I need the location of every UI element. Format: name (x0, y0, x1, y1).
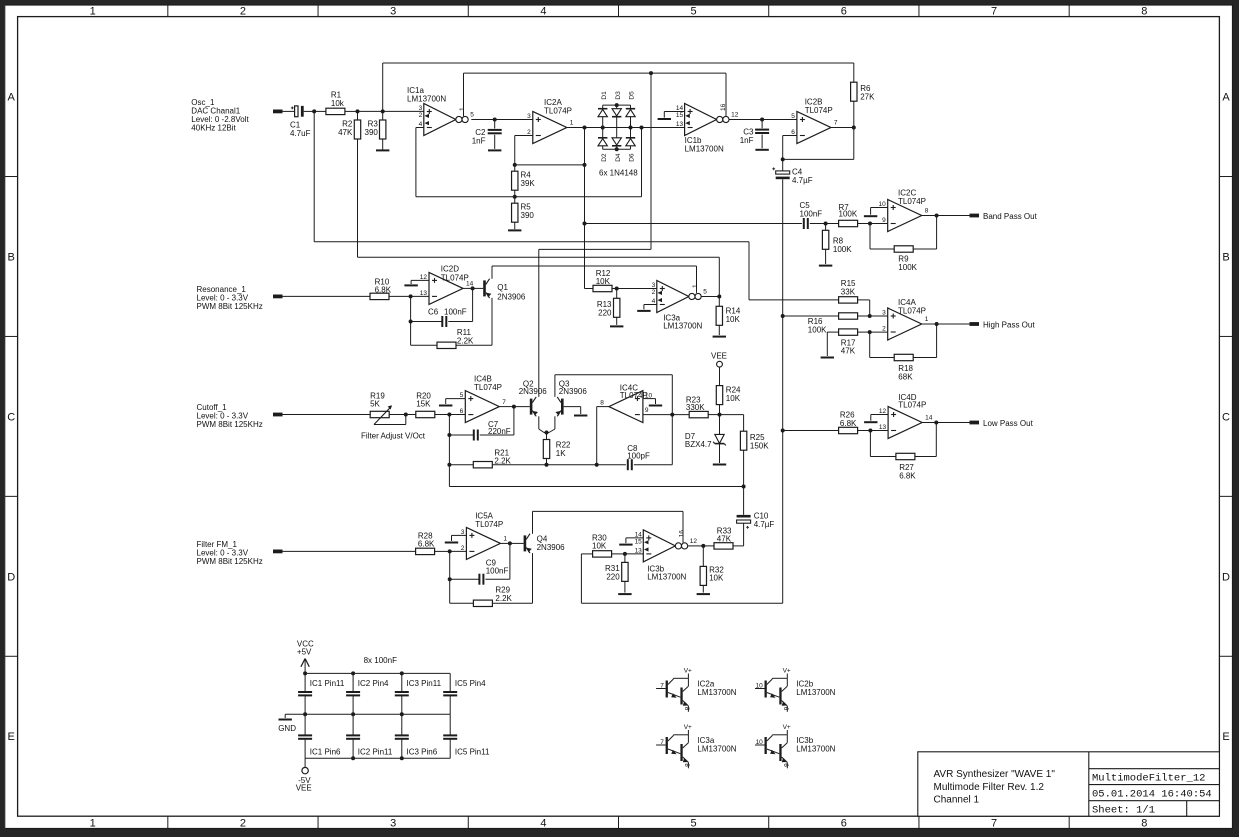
diode D4 1N4148 (612, 138, 621, 146)
wire bypass cap top lead (449, 673, 451, 692)
svg-text:100nF: 100nF (486, 566, 509, 575)
wire (671, 375, 673, 415)
wire (314, 110, 326, 112)
svg-text:10: 10 (756, 739, 764, 746)
junction (400, 756, 404, 760)
junction (351, 756, 355, 760)
wire (762, 119, 797, 121)
wire IC1b +in stub (664, 111, 684, 113)
ground below C3 (755, 149, 768, 151)
label R9 (898, 255, 917, 273)
svg-text:100K: 100K (833, 245, 852, 254)
wire bypass cap top lead (401, 714, 403, 735)
wire (435, 414, 450, 416)
svg-text:100pF: 100pF (627, 451, 650, 460)
svg-text:6: 6 (841, 6, 847, 18)
wire (445, 399, 447, 404)
svg-text:47K: 47K (841, 347, 856, 356)
buffer IC2a (656, 667, 737, 712)
junction IC2D out/C6 (471, 286, 475, 290)
wire R6 bottom lead (853, 101, 855, 127)
wire C9 left lead (450, 578, 479, 580)
resistor R12 10K (593, 285, 612, 291)
wire IC3a output (701, 296, 719, 298)
capacitor bypass 100nF (IC5 Pin4) (443, 692, 457, 695)
junction VCC rail (303, 671, 307, 675)
ground stub IC3b +in (619, 544, 632, 546)
svg-text:2: 2 (240, 817, 246, 829)
junction band-pass tap (583, 222, 587, 226)
junction R19 wiper (404, 413, 408, 417)
wire IC2B output (831, 127, 854, 129)
svg-text:6.8K: 6.8K (375, 286, 392, 295)
wire bypass cap bottom lead (304, 696, 306, 715)
trimmer arrow R19 (374, 405, 406, 424)
svg-text:IC3 Pin11: IC3 Pin11 (407, 679, 442, 688)
wire (858, 223, 870, 225)
svg-text:IC2 Pin11: IC2 Pin11 (358, 748, 393, 757)
svg-text:10K: 10K (726, 315, 741, 324)
svg-text:1: 1 (692, 284, 699, 288)
svg-text:10K: 10K (596, 277, 611, 286)
wire D5 top lead (630, 105, 632, 109)
wire R25 bottom (743, 450, 745, 486)
label R11 (457, 328, 474, 345)
svg-text:15: 15 (676, 112, 684, 119)
svg-text:2N3906: 2N3906 (559, 387, 588, 396)
svg-text:LM13700N: LM13700N (647, 573, 686, 582)
svg-text:C6: C6 (428, 308, 439, 317)
wire to R25 (720, 414, 744, 416)
wire (617, 288, 657, 290)
wire (643, 305, 645, 310)
capacitor C9 100nF (479, 574, 483, 585)
wire C7 right lead (480, 434, 514, 436)
svg-text:TL074P: TL074P (898, 197, 926, 206)
svg-text:2N3906: 2N3906 (497, 292, 526, 301)
svg-text:7: 7 (834, 120, 838, 127)
capacitor bypass 100nF (IC1 Pin11) (298, 692, 312, 695)
svg-text:1: 1 (503, 536, 507, 543)
op-amp IC2B labels (805, 98, 833, 116)
capacitor bypass 100nF (IC2 Pin11) (346, 735, 360, 738)
buffer IC3b (755, 724, 836, 769)
wire (411, 295, 429, 297)
svg-text:B: B (1222, 251, 1229, 263)
wire R31 top (624, 554, 626, 563)
svg-text:5: 5 (470, 112, 474, 119)
svg-text:6.8K: 6.8K (418, 540, 435, 549)
junction C6 left (409, 320, 413, 324)
wire R21 right lead (492, 464, 546, 466)
wire (915, 456, 936, 458)
wire IC5A -in riser down (449, 551, 451, 603)
labels D2 D4 D6 (601, 153, 636, 162)
label R22 (556, 441, 571, 458)
junction (400, 712, 404, 716)
wire Q3 collector riser (554, 375, 556, 397)
svg-text:Channel 1: Channel 1 (934, 795, 980, 806)
label R4 (521, 171, 536, 189)
wire (936, 422, 969, 424)
junction IC2B out/R6 (852, 126, 856, 130)
op-amp IC2C TL074P (888, 200, 922, 232)
capacitor C4 4.7uF (polarized) (772, 159, 789, 179)
svg-text:9: 9 (784, 706, 791, 710)
wire (870, 430, 888, 432)
svg-text:6x 1N4148: 6x 1N4148 (599, 169, 638, 178)
wire bypass cap top lead (352, 714, 354, 735)
label C3 (740, 128, 754, 146)
wire R9 feedback right (936, 216, 938, 250)
wire R18 feedback right (936, 324, 938, 358)
wire R3 top (382, 111, 384, 120)
svg-text:7: 7 (660, 682, 664, 689)
junction R20/IC4B -in (447, 413, 451, 417)
resistor R9 100K (894, 246, 913, 252)
resistor R6 27K (851, 82, 857, 101)
wire (733, 545, 744, 547)
wire R6 top lead (853, 63, 855, 82)
wire (869, 332, 871, 357)
svg-text:220: 220 (606, 573, 620, 582)
wire C8 right riser (671, 415, 673, 465)
svg-text:7: 7 (660, 739, 664, 746)
transistor Q2 2N3906 (530, 397, 538, 416)
wire IC2C +in stub (871, 207, 888, 209)
junction IC3b out/R32/R33 (701, 544, 705, 548)
wire C7 left lead (449, 434, 473, 436)
wire IC1b pin16 riser (725, 73, 727, 116)
capacitor C1 4.7uF (polarized) (291, 106, 304, 117)
svg-text:Q1: Q1 (497, 283, 508, 292)
wire IC2D -in riser down (410, 296, 412, 345)
wire C9 right lead (485, 578, 510, 580)
wire top feedback rail (IC2B output to R3 node) (383, 62, 854, 64)
junction IC2A out bus (583, 126, 587, 130)
svg-text:33K: 33K (841, 287, 856, 296)
capacitor C7 220nF (474, 430, 478, 441)
wire (389, 414, 406, 416)
wire (937, 323, 970, 325)
wire IC4D +in stub (871, 414, 888, 416)
labels Q1 (497, 283, 526, 301)
wire R4 top lead (514, 165, 516, 171)
wire IC2B -in (783, 135, 797, 137)
label Osc_1 input (191, 98, 249, 132)
wire rail C1 node to R15 feed (314, 241, 749, 243)
op-amp IC4C labels (620, 384, 648, 400)
wire bypass cap bottom lead (449, 696, 451, 715)
label R15 (841, 279, 856, 296)
wire R13 bottom (616, 317, 618, 325)
pin labels IC2C (878, 201, 928, 224)
labels D7 (685, 432, 712, 449)
labels D1 D3 D5 (601, 91, 636, 100)
resistor R24 10K (716, 386, 722, 405)
wire (869, 431, 871, 457)
svg-text:A: A (8, 92, 16, 104)
wire (514, 406, 530, 408)
label C7 (488, 420, 511, 436)
pin labels IC2A (527, 113, 574, 136)
ground below R14 (713, 336, 726, 338)
svg-text:100nF: 100nF (800, 210, 823, 219)
resistor R11 2.2K (437, 342, 456, 348)
wire (869, 224, 871, 250)
wire IC2C output (922, 215, 937, 217)
svg-text:V+: V+ (783, 667, 791, 674)
resistor R27 6.8K (896, 453, 915, 459)
svg-text:Band Pass Out: Band Pass Out (983, 212, 1038, 221)
junction R17/R18/IC4A -in (868, 330, 872, 334)
svg-text:8: 8 (1141, 817, 1147, 829)
wire (612, 553, 625, 555)
wire bypass cap bottom lead (304, 739, 306, 758)
svg-text:9: 9 (645, 407, 649, 414)
wire IC4B +in stub (446, 398, 466, 400)
label R16 (808, 317, 827, 334)
svg-text:VEE: VEE (296, 784, 312, 793)
resistor R1 10k (326, 108, 345, 114)
transistor Q3 2N3906 (555, 397, 563, 416)
op-amp IC4B labels (474, 375, 502, 393)
op-amp IC5A labels (475, 512, 503, 530)
svg-text:VEE: VEE (711, 352, 727, 361)
resistor R17 47K (839, 329, 858, 335)
wire (870, 315, 888, 317)
terminal Cutoff_1 input (273, 413, 283, 417)
wire (826, 223, 839, 225)
svg-text:47K: 47K (717, 535, 732, 544)
wire (663, 112, 665, 118)
wire R18 feedback left (870, 357, 895, 359)
junction (303, 712, 307, 716)
title block text (934, 769, 1212, 817)
capacitor bypass 100nF (IC2 Pin4) (346, 692, 360, 695)
resistor R13 220 (614, 298, 620, 317)
capacitor bypass 100nF (IC3 Pin11) (395, 692, 409, 695)
svg-text:10K: 10K (726, 394, 741, 403)
wire R14 top (718, 297, 720, 307)
label C8 (627, 444, 650, 461)
junction C1/R1/feedback node (312, 109, 316, 113)
wire (449, 414, 465, 416)
wire (513, 407, 515, 435)
wire (495, 119, 533, 121)
op-amp IC4A labels (898, 298, 926, 316)
wire R5 top (514, 197, 516, 204)
wire bypass cap bottom lead (352, 739, 354, 758)
wire (672, 414, 689, 416)
svg-text:E: E (8, 731, 15, 743)
svg-text:6.8K: 6.8K (899, 472, 916, 481)
svg-text:4.7µF: 4.7µF (792, 176, 813, 185)
ground below R17 (821, 357, 834, 359)
resistor R19 5K trimmer (370, 411, 389, 417)
svg-text:2.2K: 2.2K (494, 456, 511, 465)
OTA IC1b labels (685, 136, 724, 154)
op-amp IC1a labels (407, 86, 446, 104)
wire LP bus bottom loop (581, 602, 782, 604)
op-amp IC2B TL074P (797, 112, 831, 144)
wire IC4C output (597, 406, 609, 408)
svg-text:D2: D2 (601, 153, 608, 162)
svg-text:10: 10 (878, 201, 886, 208)
terminal High Pass Out (970, 322, 980, 326)
title block frame (918, 752, 1220, 816)
svg-text:3: 3 (527, 113, 531, 120)
wire (783, 158, 854, 160)
pin labels IC4C (600, 392, 652, 414)
wire (655, 399, 657, 404)
wire IC2A output bus down (584, 128, 586, 289)
svg-text:AVR Synthesizer "WAVE 1": AVR Synthesizer "WAVE 1" (934, 769, 1056, 780)
junction C2 tap (493, 118, 497, 122)
capacitor bypass 100nF (IC3 Pin6) (395, 735, 409, 738)
svg-text:Low Pass Out: Low Pass Out (983, 419, 1034, 428)
wire IC3a -in stub (644, 304, 657, 306)
svg-text:40KHz 12Bit: 40KHz 12Bit (191, 124, 236, 133)
svg-text:15K: 15K (416, 400, 431, 409)
junction (351, 712, 355, 716)
wire bypass bottom rail (305, 757, 450, 759)
op-amp IC4D TL074P (888, 407, 922, 439)
svg-text:IC1 Pin6: IC1 Pin6 (310, 748, 341, 757)
wire R3 bottom (382, 139, 384, 150)
transistor Q1 2N3906 (483, 279, 491, 298)
wire R11 right lead (456, 344, 492, 346)
wire IC2D output (463, 287, 473, 289)
junction R1/R2 (356, 109, 360, 113)
wire R2 top (357, 111, 359, 120)
svg-text:10K: 10K (592, 542, 607, 551)
svg-text:5: 5 (691, 817, 697, 829)
svg-text:100K: 100K (808, 326, 827, 335)
wire rail Q4 collector to IC3b pin16 (533, 510, 684, 512)
label R18 (898, 364, 913, 382)
capacitor C5 100nF (804, 218, 808, 229)
op-amp IC4B TL074P (465, 391, 499, 423)
wire IC3a output riser (718, 257, 720, 296)
junction Q2/Q3 emitters (545, 431, 549, 435)
wire (827, 331, 838, 333)
wire R8 top (825, 224, 827, 231)
label C9 (486, 559, 509, 576)
wire bypass cap bottom lead (401, 739, 403, 758)
svg-text:IC3 Pin6: IC3 Pin6 (407, 748, 438, 757)
svg-text:5: 5 (791, 113, 795, 120)
svg-text:3: 3 (882, 310, 886, 317)
svg-text:2: 2 (882, 326, 886, 333)
label R21 (494, 449, 511, 466)
op-amp IC2A TL074P (533, 112, 567, 144)
wire IC5A +in stub (452, 534, 467, 536)
label R19 (370, 392, 385, 409)
label C6 (428, 308, 467, 317)
wire R32 top (702, 546, 704, 567)
resistor R25 150K (740, 431, 746, 450)
wire Q4 collector riser (532, 511, 534, 533)
wire IC1b output (729, 119, 762, 121)
svg-text:TL074P: TL074P (441, 273, 469, 282)
svg-text:12: 12 (420, 274, 428, 281)
wire rail R4/R5 node to diode mid node (416, 196, 642, 198)
svg-text:220: 220 (598, 309, 612, 318)
svg-text:D3: D3 (615, 91, 622, 100)
wire (708, 414, 719, 416)
svg-text:6: 6 (460, 408, 464, 415)
wire C6 right lead (448, 321, 472, 323)
label C2 (472, 128, 486, 146)
op-amp IC2C labels (898, 188, 926, 206)
wire Q1 collector riser (491, 266, 493, 279)
svg-text:8: 8 (685, 706, 692, 710)
svg-text:330K: 330K (686, 403, 705, 412)
svg-text:1nF: 1nF (740, 136, 754, 145)
svg-text:10K: 10K (709, 574, 724, 583)
ground stub IC2D +in (404, 284, 417, 286)
wire C2 bottom (494, 135, 496, 149)
wire diode mid node down to R4 rail (641, 128, 643, 197)
wire feedback rail y486 (449, 486, 743, 488)
wire Q1 emitter lead (491, 298, 493, 345)
svg-text:1: 1 (90, 817, 96, 829)
wire riser to IC2B feedback rail (382, 63, 384, 111)
wire R27 feedback left (870, 456, 896, 458)
svg-text:D: D (1222, 571, 1230, 583)
svg-text:MultimodeFilter_12: MultimodeFilter_12 (1092, 773, 1205, 785)
resistor R21 2.2K (473, 462, 492, 468)
svg-text:TL074P: TL074P (475, 520, 503, 529)
wire IC4C +in stub (643, 398, 656, 400)
op-amp IC2D TL074P (429, 272, 463, 304)
svg-text:3: 3 (390, 817, 396, 829)
transistor Q4 2N3906 (524, 534, 532, 553)
wire IC2A output / diode mid rail (567, 127, 685, 129)
wire R27 feedback right (935, 423, 937, 457)
wire R2 bottom to resonance feedback rail (357, 139, 359, 257)
ground stub IC3a -in (637, 310, 650, 312)
pin labels IC4B (460, 392, 507, 415)
resistor R7 100K (839, 220, 858, 226)
ground stub IC1b +in (658, 118, 671, 120)
diode D5 1N4148 (626, 109, 635, 117)
svg-text:2: 2 (240, 6, 246, 18)
junction C5/R8 (824, 222, 828, 226)
wire rail R2 to IC3a output (358, 256, 720, 258)
label R17 (841, 339, 856, 356)
junction (400, 671, 404, 675)
ground GND symbol (278, 714, 296, 733)
terminal Resonance_1 input (273, 295, 283, 299)
junction IC4B out/C7 (512, 405, 516, 409)
label R1 (331, 91, 345, 108)
buffer IC2b (755, 667, 836, 712)
ground stub IC4B +in (439, 405, 452, 407)
wire R32 bottom (702, 585, 704, 592)
junction bus/R16 (781, 314, 785, 318)
svg-text:8: 8 (600, 399, 604, 406)
wire R21 left lead (449, 464, 473, 466)
zener diode D7 BZX4.7 (713, 434, 726, 445)
label R13 (597, 300, 612, 317)
svg-text:LM13700N: LM13700N (796, 688, 835, 697)
OTA IC3a LM13700N (652, 281, 708, 313)
wire IC2D +in stub (411, 279, 429, 281)
wire (913, 248, 936, 250)
wire R14 bottom (718, 325, 720, 335)
